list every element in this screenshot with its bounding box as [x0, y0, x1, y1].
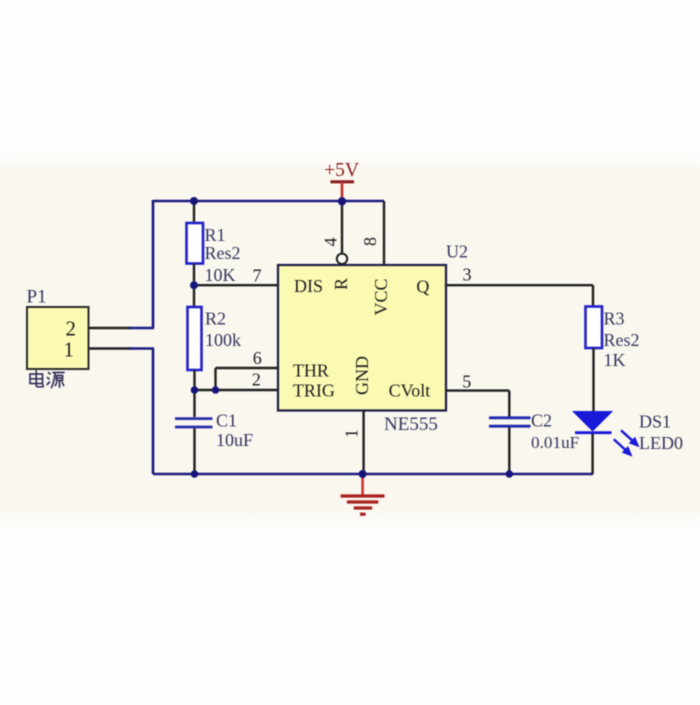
- label C2 0.01uF: [531, 411, 579, 453]
- pin 6 THR label: [253, 348, 329, 381]
- svg-text:8: 8: [360, 237, 380, 246]
- svg-text:C2: C2: [531, 411, 552, 431]
- wire THR/TRIG tie: [195, 368, 279, 391]
- svg-text:+5V: +5V: [324, 160, 359, 181]
- svg-text:DIS: DIS: [294, 276, 323, 296]
- pin 8 VCC: [360, 201, 391, 316]
- wire bottom rail: [153, 473, 593, 476]
- svg-text:10K: 10K: [205, 265, 236, 285]
- svg-text:1: 1: [64, 338, 75, 362]
- wire pin7 DIS: [194, 284, 278, 286]
- svg-text:7: 7: [253, 266, 262, 286]
- svg-text:6: 6: [253, 348, 262, 368]
- svg-text:TRIG: TRIG: [293, 380, 335, 400]
- resistor R3: [586, 307, 603, 413]
- svg-text:1: 1: [342, 429, 362, 438]
- resistor R2: [188, 307, 202, 391]
- wire left rail lower: [152, 349, 155, 475]
- op-amp U2 NE555 body: [278, 242, 468, 436]
- label C1 10uF: [216, 411, 253, 451]
- label DS1 LED0: [639, 412, 683, 454]
- svg-text:VCC: VCC: [371, 278, 391, 315]
- svg-text:P1: P1: [27, 287, 47, 308]
- svg-text:100k: 100k: [205, 330, 241, 350]
- svg-text:5: 5: [462, 372, 471, 392]
- label 电源 (power): [30, 371, 64, 388]
- svg-text:2: 2: [252, 370, 261, 390]
- label R3 Res2 1K: [604, 309, 640, 371]
- wire P1 pin2 to left rail: [89, 327, 154, 329]
- svg-text:NE555: NE555: [384, 414, 438, 435]
- pin 7 DIS label: [253, 266, 324, 296]
- svg-text:R: R: [331, 278, 351, 290]
- svg-text:4: 4: [321, 238, 341, 247]
- svg-text:3: 3: [463, 265, 472, 285]
- svg-text:C1: C1: [216, 411, 237, 431]
- svg-text:CVolt: CVolt: [389, 380, 431, 400]
- wire P1 pin1 to left rail: [89, 347, 154, 349]
- svg-text:THR: THR: [293, 361, 329, 381]
- pin 2 TRIG label: [252, 370, 335, 401]
- label R1 Res2 10K: [205, 225, 241, 285]
- svg-text:LED0: LED0: [639, 433, 683, 453]
- svg-text:0.01uF: 0.01uF: [531, 433, 579, 452]
- ground: [341, 474, 385, 514]
- svg-text:R1: R1: [205, 225, 226, 245]
- junction dots: [190, 197, 513, 478]
- svg-text:DS1: DS1: [639, 412, 671, 432]
- wire left rail upper: [152, 200, 155, 328]
- capacitor C2: [489, 391, 531, 474]
- svg-text:R3: R3: [604, 309, 625, 329]
- svg-text:GND: GND: [352, 356, 372, 395]
- svg-text:U2: U2: [446, 242, 468, 262]
- wire top rail: [153, 200, 384, 203]
- LED DS1: [572, 411, 640, 474]
- svg-text:1K: 1K: [604, 350, 626, 370]
- svg-text:10uF: 10uF: [216, 430, 253, 450]
- connector P1: [27, 287, 89, 370]
- svg-text:Q: Q: [416, 277, 429, 297]
- pin 3 Q output: [416, 265, 593, 309]
- label R2 100k: [205, 309, 241, 351]
- svg-text:Res2: Res2: [205, 243, 241, 263]
- power +5V: [324, 160, 359, 202]
- capacitor C1: [175, 390, 213, 474]
- pin 1 GND: [342, 356, 373, 474]
- svg-text:R2: R2: [205, 309, 226, 329]
- pin 4 R (reset, with bubble): [321, 201, 352, 290]
- pin 5 CVolt: [389, 372, 510, 401]
- svg-text:Res2: Res2: [604, 330, 640, 350]
- resistor R1: [187, 201, 204, 308]
